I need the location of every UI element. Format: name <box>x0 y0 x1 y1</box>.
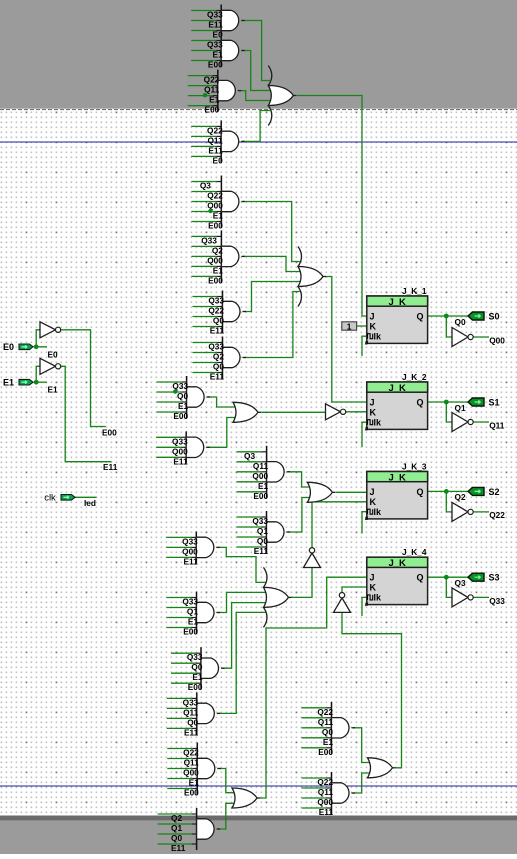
svg-text:Q22: Q22 <box>317 777 333 787</box>
svg-text:E00: E00 <box>205 105 220 115</box>
svg-text:E0: E0 <box>48 349 59 359</box>
svg-text:1: 1 <box>347 321 352 331</box>
svg-text:E1: E1 <box>213 211 224 221</box>
svg-text:S3: S3 <box>489 573 500 583</box>
svg-text:Q00: Q00 <box>252 471 268 481</box>
wire ANDH out to ORL in4 <box>218 612 265 713</box>
wire ORL out to inverter V1 <box>291 568 312 598</box>
inverter Y3 <box>452 502 473 521</box>
svg-text:Q33: Q33 <box>207 40 223 50</box>
svg-text:Q0: Q0 <box>191 662 202 672</box>
wire ANDA out to ORB in1 <box>288 472 310 487</box>
OR gate ORB <box>307 482 335 502</box>
svg-text:J_K_1: J_K_1 <box>402 286 427 296</box>
wire ANDJ out to ORI in1 <box>219 769 235 793</box>
svg-text:Q22: Q22 <box>204 75 220 85</box>
wire OR1 out to FF1 J <box>296 96 366 317</box>
svg-text:Q33: Q33 <box>208 342 224 352</box>
svg-text:Q11: Q11 <box>318 787 334 797</box>
svg-text:E11: E11 <box>171 843 186 853</box>
svg-text:Q11: Q11 <box>183 707 199 717</box>
svg-text:Q33: Q33 <box>182 536 198 546</box>
wire Q3 branch to inverter Y4 <box>446 577 452 597</box>
wire AND1 out to OR1 in1 <box>243 21 270 81</box>
svg-text:E00: E00 <box>253 491 268 501</box>
OR gate OR1 <box>268 66 296 126</box>
svg-text:lk: lk <box>374 593 383 603</box>
wire FF3 clk stub <box>362 512 367 534</box>
wire ANDK out to ORL in2 <box>218 592 267 612</box>
wire Z1 out to FF2 K <box>346 411 367 413</box>
svg-text:E00: E00 <box>102 427 117 437</box>
wire OR2 out to FF2 J <box>326 277 367 403</box>
svg-text:Q33: Q33 <box>208 296 224 306</box>
J-K flip-flop J_K_1 <box>365 286 428 347</box>
wire ORE out to inverter V2 <box>342 612 402 767</box>
svg-text:E00: E00 <box>184 788 199 798</box>
AND gate AC <box>237 511 291 556</box>
wire E0 stub <box>34 346 48 348</box>
AND gate A6 <box>191 230 245 285</box>
svg-text:E11: E11 <box>103 462 118 472</box>
svg-text:Q1: Q1 <box>187 607 198 617</box>
svg-text:E11: E11 <box>183 556 198 566</box>
wire E1 stub <box>34 381 48 383</box>
wire ANDF out to ORE in2 <box>353 773 370 793</box>
wire inverter V2 out to FF4 K <box>342 587 367 593</box>
OR gate ORI <box>232 788 260 808</box>
junction E1 node <box>34 380 39 385</box>
wire Y4 out Q33 <box>473 596 489 598</box>
svg-text:E11: E11 <box>254 546 269 556</box>
svg-text:E00: E00 <box>183 627 198 637</box>
label S0 <box>489 312 500 322</box>
wire FF2 Q to S1 <box>428 401 471 403</box>
svg-text:S0: S0 <box>489 312 500 322</box>
inverter V1 (pointing up) <box>304 548 321 568</box>
wire Q2 branch to inverter Y3 <box>446 491 452 512</box>
svg-text:S1: S1 <box>489 398 500 408</box>
svg-text:E00: E00 <box>188 682 203 692</box>
svg-text:ø: ø <box>365 340 369 347</box>
svg-text:led: led <box>84 498 96 508</box>
gray area below sheet <box>0 816 517 821</box>
svg-text:E00: E00 <box>208 60 223 70</box>
label clk port <box>44 492 56 503</box>
svg-text:Q11: Q11 <box>253 461 269 471</box>
label Q2 <box>455 492 466 502</box>
svg-text:J_K_4: J_K_4 <box>402 547 427 557</box>
output connector S2 <box>468 487 484 495</box>
inverter X2 (E1) <box>40 358 61 374</box>
output connector S3 <box>468 573 484 581</box>
junction E0 node <box>34 344 39 349</box>
AND gate A9 <box>157 376 211 421</box>
AND gate A2 <box>191 35 245 70</box>
svg-text:E11: E11 <box>173 456 188 466</box>
svg-text:E00: E00 <box>318 747 333 757</box>
wire AND3 out to OR1 in3 <box>239 91 271 101</box>
AND gate A1 <box>191 5 245 40</box>
label E1 net <box>48 385 59 395</box>
OR gate ORE <box>368 758 396 778</box>
svg-text:ø: ø <box>365 515 369 522</box>
inverter Y2 <box>452 413 473 432</box>
input connector E1 <box>19 379 33 385</box>
svg-text:S2: S2 <box>489 487 500 497</box>
wire Y3 out Q22 <box>473 511 489 513</box>
svg-text:Q: Q <box>416 573 423 583</box>
wire E1 to inverter X2 <box>36 366 40 382</box>
sheet top dashed boundary <box>0 109 517 111</box>
AND gate AK <box>167 592 221 637</box>
svg-text:K: K <box>370 497 377 507</box>
svg-text:E00: E00 <box>173 411 188 421</box>
svg-text:Q33: Q33 <box>489 596 505 606</box>
svg-text:E00: E00 <box>208 275 223 285</box>
junction Q2 node <box>444 489 449 494</box>
label Q22 <box>489 510 505 520</box>
label S1 <box>489 398 500 408</box>
wire AND5 out to OR2 in1 <box>243 202 300 262</box>
svg-text:E1: E1 <box>48 385 59 395</box>
svg-text:E1: E1 <box>323 737 334 747</box>
wire X2 out to E11 <box>61 366 112 461</box>
svg-text:J: J <box>370 397 375 407</box>
OR gate OR2 <box>298 247 326 307</box>
svg-text:Q1: Q1 <box>257 526 268 536</box>
svg-text:J_K: J_K <box>388 297 406 308</box>
svg-text:Q11: Q11 <box>318 717 334 727</box>
svg-text:lk: lk <box>374 507 383 517</box>
svg-text:Q: Q <box>416 311 423 321</box>
wire E0 to inverter X1 <box>36 330 40 347</box>
svg-text:J: J <box>370 487 375 497</box>
OR gate OR3 <box>233 402 261 422</box>
svg-text:J_K: J_K <box>388 558 406 569</box>
output connector S1 <box>468 398 484 406</box>
junction Q3 node <box>444 575 449 580</box>
svg-text:Q2: Q2 <box>171 813 182 823</box>
input connector E0 <box>19 344 33 350</box>
svg-text:E0: E0 <box>3 342 14 352</box>
svg-text:lk: lk <box>374 332 383 342</box>
svg-text:Q3: Q3 <box>200 181 211 191</box>
AND gate AN <box>166 531 220 566</box>
svg-text:E1: E1 <box>258 481 269 491</box>
label led net <box>84 498 96 508</box>
label Q11 <box>489 420 505 430</box>
svg-text:E1: E1 <box>213 265 224 275</box>
svg-text:Q33: Q33 <box>182 597 198 607</box>
junction Q0 node <box>444 314 449 319</box>
wire FF2 clk stub <box>362 422 367 447</box>
AND gate AB <box>158 808 221 853</box>
J-K flip-flop J_K_4 <box>365 547 428 608</box>
wire X1 out to E00 <box>61 330 106 427</box>
wire Y2 out Q11 <box>473 421 489 423</box>
svg-text:Q33: Q33 <box>207 10 223 20</box>
svg-text:Q22: Q22 <box>208 306 224 316</box>
label E0 net <box>48 349 59 359</box>
label E11 net <box>103 462 118 472</box>
svg-text:J: J <box>370 573 375 583</box>
svg-text:Q1: Q1 <box>171 823 182 833</box>
wire AND6 out to OR2 in2 <box>243 256 301 271</box>
svg-text:J_K_2: J_K_2 <box>402 372 427 382</box>
svg-text:Q11: Q11 <box>207 135 223 145</box>
svg-text:E11: E11 <box>319 807 334 817</box>
AND gate A7 <box>193 291 247 336</box>
svg-text:Q22: Q22 <box>207 191 223 201</box>
svg-text:Q00: Q00 <box>172 446 188 456</box>
svg-text:J: J <box>370 311 375 321</box>
J-K flip-flop J_K_3 <box>365 462 428 523</box>
svg-text:Q00: Q00 <box>489 335 505 345</box>
junction Q1 node <box>444 400 449 405</box>
wire ANDB out to ORI in2 <box>218 803 234 829</box>
gray area above sheet <box>0 0 517 109</box>
wire AND9 out to OR3 in1 <box>208 397 236 407</box>
svg-text:Q0: Q0 <box>455 317 466 327</box>
svg-text:K: K <box>370 321 377 331</box>
svg-text:Q00: Q00 <box>317 797 333 807</box>
svg-text:Q0: Q0 <box>257 536 268 546</box>
wire ANDG out to ORL in3 <box>223 603 267 669</box>
AND gate A5 <box>191 176 245 231</box>
svg-text:ø: ø <box>365 426 369 433</box>
wire Y1 out Q00 <box>473 336 489 338</box>
output connector S0 <box>468 312 484 320</box>
svg-text:Q2: Q2 <box>455 492 466 502</box>
svg-text:E1: E1 <box>209 95 220 105</box>
wire ORB out to FF3 J <box>336 491 367 493</box>
AND gate AH <box>167 692 221 737</box>
label S3 <box>489 573 500 583</box>
wire FF4 clk stub <box>362 597 367 616</box>
inverter Z1 <box>326 404 346 420</box>
svg-text:lk: lk <box>374 418 383 428</box>
AND gate A3 <box>188 70 242 115</box>
svg-text:Q22: Q22 <box>183 748 199 758</box>
constant 1 source <box>342 321 357 331</box>
label Q1 <box>455 403 466 413</box>
label Q00 <box>489 335 505 345</box>
inverter Y1 <box>452 328 473 347</box>
wire AND7 out to OR2 in3 <box>244 282 301 312</box>
junction net dot A3-E1 <box>203 93 207 97</box>
svg-text:Q22: Q22 <box>489 510 505 520</box>
svg-text:clk: clk <box>44 492 56 503</box>
svg-text:Q00: Q00 <box>183 768 199 778</box>
svg-text:Q00: Q00 <box>207 255 223 265</box>
label E00 net <box>102 427 117 437</box>
inverter X1 (E0) <box>40 322 61 338</box>
wire Q1 branch to inverter Y2 <box>446 402 452 422</box>
wire ORI out to FF4 J <box>260 577 367 798</box>
wire FF1 clk stub <box>362 336 367 356</box>
wire inverter V1 out to FF3 K <box>312 502 367 548</box>
svg-text:Q3: Q3 <box>244 451 255 461</box>
svg-text:Q33: Q33 <box>172 436 188 446</box>
svg-text:Q2: Q2 <box>213 352 224 362</box>
svg-text:E1: E1 <box>188 617 199 627</box>
label Q33 <box>489 596 505 606</box>
AND gate AG <box>171 647 225 692</box>
wire Q0 branch to inverter Y1 <box>446 316 452 337</box>
svg-text:J_K_3: J_K_3 <box>402 462 427 472</box>
AND gate A4 <box>191 120 245 165</box>
svg-text:Q3: Q3 <box>455 578 466 588</box>
J-K flip-flop J_K_2 <box>365 372 428 433</box>
AND gate AF <box>302 772 356 817</box>
svg-text:E11: E11 <box>208 20 223 30</box>
svg-text:E1: E1 <box>192 672 203 682</box>
svg-text:Q2: Q2 <box>212 245 223 255</box>
svg-text:Q: Q <box>416 487 423 497</box>
input connector clk <box>61 495 75 501</box>
svg-text:Q33: Q33 <box>201 235 217 245</box>
svg-text:E00: E00 <box>208 221 223 231</box>
AND gate AD <box>302 702 356 757</box>
svg-text:Q0: Q0 <box>177 391 188 401</box>
svg-text:Q0: Q0 <box>187 717 198 727</box>
wire AND2 out to OR1 in2 <box>243 51 271 91</box>
svg-text:Q33: Q33 <box>252 516 268 526</box>
svg-text:Q33: Q33 <box>183 697 199 707</box>
svg-text:Q22: Q22 <box>317 707 333 717</box>
wire ANDM out to OR3 in2 <box>207 418 235 448</box>
svg-text:E11: E11 <box>210 326 225 336</box>
svg-text:Q11: Q11 <box>184 758 200 768</box>
svg-text:Q: Q <box>416 397 423 407</box>
svg-text:ø: ø <box>365 601 369 608</box>
svg-text:J_K: J_K <box>388 472 406 483</box>
svg-text:Q0: Q0 <box>322 727 333 737</box>
junction net dot A9-Q0 <box>173 389 177 393</box>
wire clk stub <box>75 496 97 498</box>
svg-text:E0: E0 <box>213 155 224 165</box>
svg-text:E11: E11 <box>184 727 199 737</box>
svg-text:E1: E1 <box>178 401 189 411</box>
svg-text:Q11: Q11 <box>489 420 505 430</box>
svg-text:Q0: Q0 <box>213 316 224 326</box>
svg-text:K: K <box>370 583 377 593</box>
AND gate AJ <box>167 743 221 798</box>
svg-text:E1: E1 <box>3 378 14 388</box>
blue page border line (top) <box>0 141 517 143</box>
svg-text:K: K <box>370 407 377 417</box>
svg-text:E1: E1 <box>213 50 224 60</box>
OR gate ORL <box>264 567 292 627</box>
inverter Y4 <box>452 588 473 607</box>
label Q0 <box>455 317 466 327</box>
blue page border line (bottom) <box>0 785 517 787</box>
AND gate A8 <box>193 337 247 382</box>
wire ANDN out to ORL in1 <box>218 547 265 582</box>
svg-text:Q33: Q33 <box>187 652 203 662</box>
svg-text:Q1: Q1 <box>455 403 466 413</box>
svg-text:Q00: Q00 <box>182 546 198 556</box>
svg-text:E11: E11 <box>210 372 225 382</box>
svg-text:Q0: Q0 <box>213 362 224 372</box>
svg-text:E11: E11 <box>208 145 223 155</box>
wire FF3 Q to S2 <box>428 490 471 492</box>
wire const1 to FF1 K <box>357 325 367 327</box>
wire ANDD out to ORE in1 <box>353 728 370 763</box>
svg-text:Q22: Q22 <box>207 125 223 135</box>
AND gate AA <box>237 446 291 501</box>
wire FF4 Q to S3 <box>428 576 471 578</box>
wire AND8 out to OR2 in4 <box>244 292 300 358</box>
svg-text:Q0: Q0 <box>171 833 182 843</box>
wire ANDC out to ORB in2 <box>288 498 310 533</box>
label S2 <box>489 487 500 497</box>
junction net dot A5-E1 <box>208 209 212 213</box>
wire FF1 Q to S0 <box>428 315 471 317</box>
label E0 port <box>3 342 14 352</box>
wire OR3 out to inverter Z1 <box>261 411 325 413</box>
svg-text:Q11: Q11 <box>204 85 220 95</box>
AND gate AM <box>156 431 210 466</box>
wire AND4 out to OR1 in4 <box>243 111 270 142</box>
svg-text:J_K: J_K <box>388 383 406 394</box>
label Q3 <box>455 578 466 588</box>
inverter V2 (pointing up) <box>334 593 351 613</box>
label E1 port <box>3 378 14 388</box>
svg-text:E1: E1 <box>189 778 200 788</box>
